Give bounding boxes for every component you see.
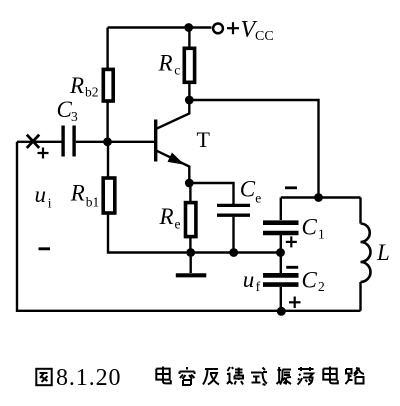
svg-text:C: C [302, 267, 318, 292]
svg-text:R: R [158, 51, 173, 76]
minus above C2 [286, 266, 298, 269]
node right [314, 193, 323, 202]
capacitor C3 [63, 126, 74, 157]
inductor L [361, 198, 371, 311]
svg-text:C: C [302, 215, 318, 240]
plus below C1 [286, 236, 297, 247]
capacitor C2 [263, 253, 299, 312]
node C1 C2 junction [276, 248, 285, 257]
svg-text:R: R [159, 204, 174, 229]
node ground junction [186, 248, 195, 257]
wire left rail and bottom rail [17, 142, 361, 311]
svg-text:3: 3 [71, 109, 78, 124]
svg-text:C: C [240, 177, 256, 202]
node bottom [277, 307, 286, 316]
char rong (capacity) [180, 367, 195, 385]
node top junction [184, 23, 193, 32]
caption CJK drawn glyphs [36, 367, 364, 386]
char fan (feedback-1) [203, 369, 219, 385]
transistor T [156, 100, 190, 183]
svg-text:L: L [376, 240, 390, 265]
svg-text:R: R [70, 180, 85, 205]
resistor Rc [184, 28, 194, 97]
power terminal circle [213, 24, 223, 34]
char dang (oscillate-2) [298, 367, 314, 385]
char kui (feedback-2) [227, 367, 243, 385]
resistor Re [186, 183, 196, 253]
svg-text:e: e [255, 191, 261, 206]
svg-text:b1: b1 [86, 195, 100, 210]
input x mark [27, 135, 39, 148]
node Ce junction [229, 248, 238, 257]
char tu (figure) [36, 369, 51, 385]
svg-text:8.1.20: 8.1.20 [56, 365, 121, 391]
capacitor C1 [263, 198, 299, 253]
minus sign ui [39, 247, 51, 250]
char shi (type) [251, 368, 267, 386]
node base [103, 137, 112, 146]
char lu (circuit) [346, 368, 365, 384]
wire collector to right column [189, 100, 318, 198]
capacitor Ce [217, 205, 250, 215]
svg-text:e: e [175, 216, 181, 231]
ground [176, 253, 207, 276]
wire Ce to rail [232, 217, 234, 253]
svg-text:R: R [69, 73, 84, 98]
svg-text:CC: CC [255, 29, 274, 44]
svg-text:T: T [197, 127, 211, 152]
minus above C1 [285, 186, 297, 189]
plus below C2 [289, 297, 301, 309]
svg-text:1: 1 [318, 227, 325, 242]
wire emitter to Ce [189, 183, 233, 204]
resistor Rb2 [103, 28, 113, 142]
svg-text:i: i [48, 195, 52, 210]
svg-text:b2: b2 [85, 85, 99, 100]
wire base [76, 141, 154, 143]
char zhen (oscillate-1) [277, 367, 292, 385]
resistor Rb1 [103, 142, 280, 253]
plus sign at input [38, 148, 49, 159]
node emitter [185, 179, 194, 188]
wire right node row [281, 196, 361, 198]
plus of Vcc [227, 22, 239, 34]
wire top rail [108, 26, 212, 28]
node collector [185, 96, 194, 105]
svg-text:c: c [174, 62, 180, 77]
char dian (electric) [156, 367, 171, 384]
wire input to C3 [17, 141, 62, 143]
char dian (electric 2) [323, 367, 338, 384]
svg-text:f: f [256, 279, 261, 294]
svg-text:u: u [243, 267, 255, 292]
svg-text:2: 2 [318, 279, 325, 294]
svg-text:u: u [35, 182, 47, 207]
